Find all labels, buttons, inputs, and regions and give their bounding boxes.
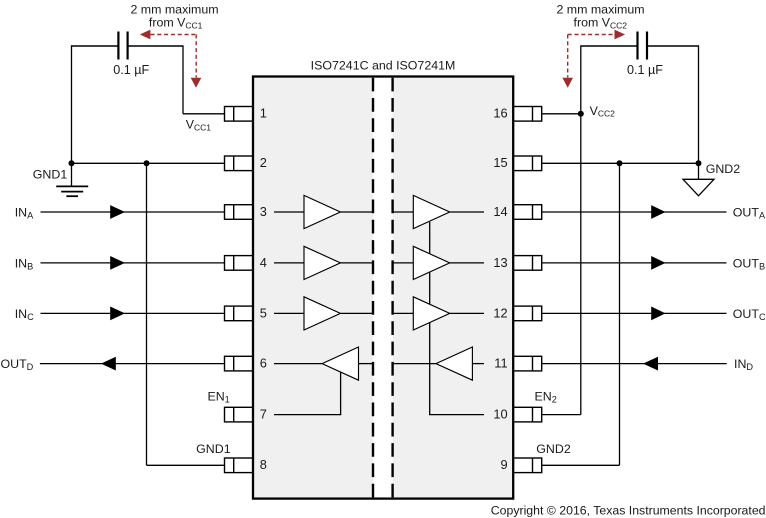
svg-text:2: 2 bbox=[260, 155, 267, 170]
svg-text:15: 15 bbox=[493, 155, 507, 170]
svg-text:14: 14 bbox=[493, 204, 507, 219]
svg-text:13: 13 bbox=[493, 255, 507, 270]
svg-text:0.1 µF: 0.1 µF bbox=[627, 63, 663, 77]
svg-text:7: 7 bbox=[260, 407, 267, 422]
svg-text:IND: IND bbox=[734, 357, 753, 372]
svg-text:6: 6 bbox=[260, 356, 267, 371]
svg-text:VCC2: VCC2 bbox=[590, 104, 616, 119]
svg-text:2 mm maximum: 2 mm maximum bbox=[556, 3, 644, 17]
svg-text:3: 3 bbox=[260, 204, 267, 219]
svg-text:OUTC: OUTC bbox=[733, 307, 766, 322]
svg-text:Copyright © 2016, Texas Instru: Copyright © 2016, Texas Instruments Inco… bbox=[491, 503, 766, 517]
svg-text:VCC1: VCC1 bbox=[186, 118, 212, 133]
svg-text:16: 16 bbox=[493, 106, 507, 121]
svg-text:INA: INA bbox=[15, 205, 34, 220]
svg-text:10: 10 bbox=[493, 407, 507, 422]
svg-text:EN1: EN1 bbox=[207, 390, 229, 405]
svg-text:5: 5 bbox=[260, 305, 267, 320]
svg-text:4: 4 bbox=[260, 255, 267, 270]
svg-text:GND2: GND2 bbox=[706, 162, 741, 176]
svg-text:INC: INC bbox=[15, 307, 34, 322]
svg-text:GND1: GND1 bbox=[33, 167, 68, 181]
svg-text:from VCC2: from VCC2 bbox=[574, 16, 628, 31]
svg-text:INB: INB bbox=[15, 256, 34, 271]
svg-text:OUTD: OUTD bbox=[1, 357, 34, 372]
svg-text:OUTA: OUTA bbox=[733, 205, 766, 220]
svg-text:1: 1 bbox=[260, 106, 267, 121]
svg-text:8: 8 bbox=[260, 457, 267, 472]
svg-text:0.1 µF: 0.1 µF bbox=[113, 63, 149, 77]
svg-text:11: 11 bbox=[494, 356, 507, 371]
svg-text:ISO7241C and ISO7241M: ISO7241C and ISO7241M bbox=[311, 58, 456, 72]
svg-text:9: 9 bbox=[500, 457, 507, 472]
svg-text:OUTB: OUTB bbox=[733, 256, 765, 271]
svg-text:12: 12 bbox=[493, 305, 507, 320]
svg-text:2 mm maximum: 2 mm maximum bbox=[130, 3, 218, 17]
svg-text:from VCC1: from VCC1 bbox=[149, 16, 203, 31]
svg-text:GND1: GND1 bbox=[196, 442, 231, 456]
svg-text:GND2: GND2 bbox=[536, 442, 571, 456]
svg-text:EN2: EN2 bbox=[535, 390, 557, 405]
